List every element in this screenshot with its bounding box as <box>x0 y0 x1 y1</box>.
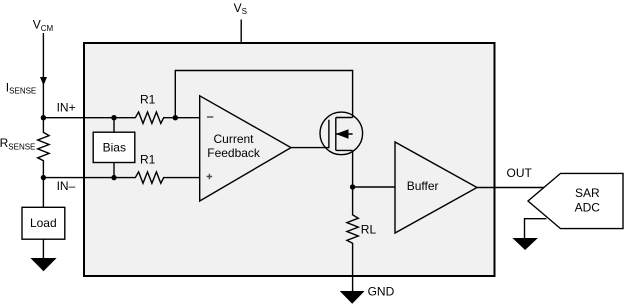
svg-text:RL: RL <box>361 222 377 236</box>
svg-text:Buffer: Buffer <box>407 179 439 193</box>
svg-text:R1: R1 <box>140 152 156 166</box>
svg-text:Feedback: Feedback <box>207 146 261 160</box>
svg-text:SAR: SAR <box>575 186 600 200</box>
svg-text:Bias: Bias <box>103 141 126 155</box>
svg-text:IN–: IN– <box>57 179 76 193</box>
svg-text:Current: Current <box>213 132 254 146</box>
svg-text:GND: GND <box>368 285 395 299</box>
svg-text:R1: R1 <box>140 93 156 107</box>
svg-text:ADC: ADC <box>575 200 601 214</box>
svg-text:IN+: IN+ <box>57 101 76 115</box>
svg-text:OUT: OUT <box>507 166 533 180</box>
svg-text:Load: Load <box>30 216 57 230</box>
